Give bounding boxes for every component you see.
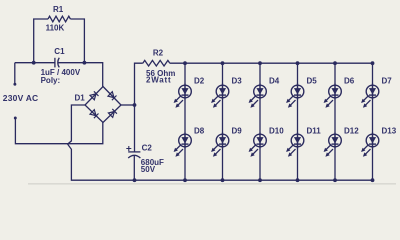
svg-text:D6: D6: [344, 77, 355, 86]
svg-text:D8: D8: [194, 126, 205, 135]
svg-text:C1: C1: [54, 47, 65, 56]
svg-text:R1: R1: [53, 5, 64, 14]
svg-text:D4: D4: [269, 77, 280, 86]
svg-text:D2: D2: [194, 77, 205, 86]
svg-text:Poly:: Poly:: [41, 76, 61, 85]
svg-text:50V: 50V: [141, 165, 156, 174]
svg-text:2Watt: 2Watt: [146, 76, 171, 85]
svg-text:R2: R2: [153, 48, 164, 57]
svg-text:C2: C2: [142, 144, 153, 153]
svg-text:D3: D3: [232, 77, 243, 86]
svg-text:D11: D11: [307, 126, 322, 135]
svg-text:D9: D9: [232, 126, 243, 135]
svg-text:D12: D12: [344, 126, 359, 135]
svg-text:D5: D5: [307, 77, 318, 86]
svg-text:D10: D10: [269, 126, 284, 135]
svg-text:110K: 110K: [46, 24, 65, 33]
svg-text:D7: D7: [382, 77, 393, 86]
svg-text:230V AC: 230V AC: [3, 93, 39, 103]
svg-text:D13: D13: [382, 126, 397, 135]
svg-text:D1: D1: [75, 94, 86, 103]
